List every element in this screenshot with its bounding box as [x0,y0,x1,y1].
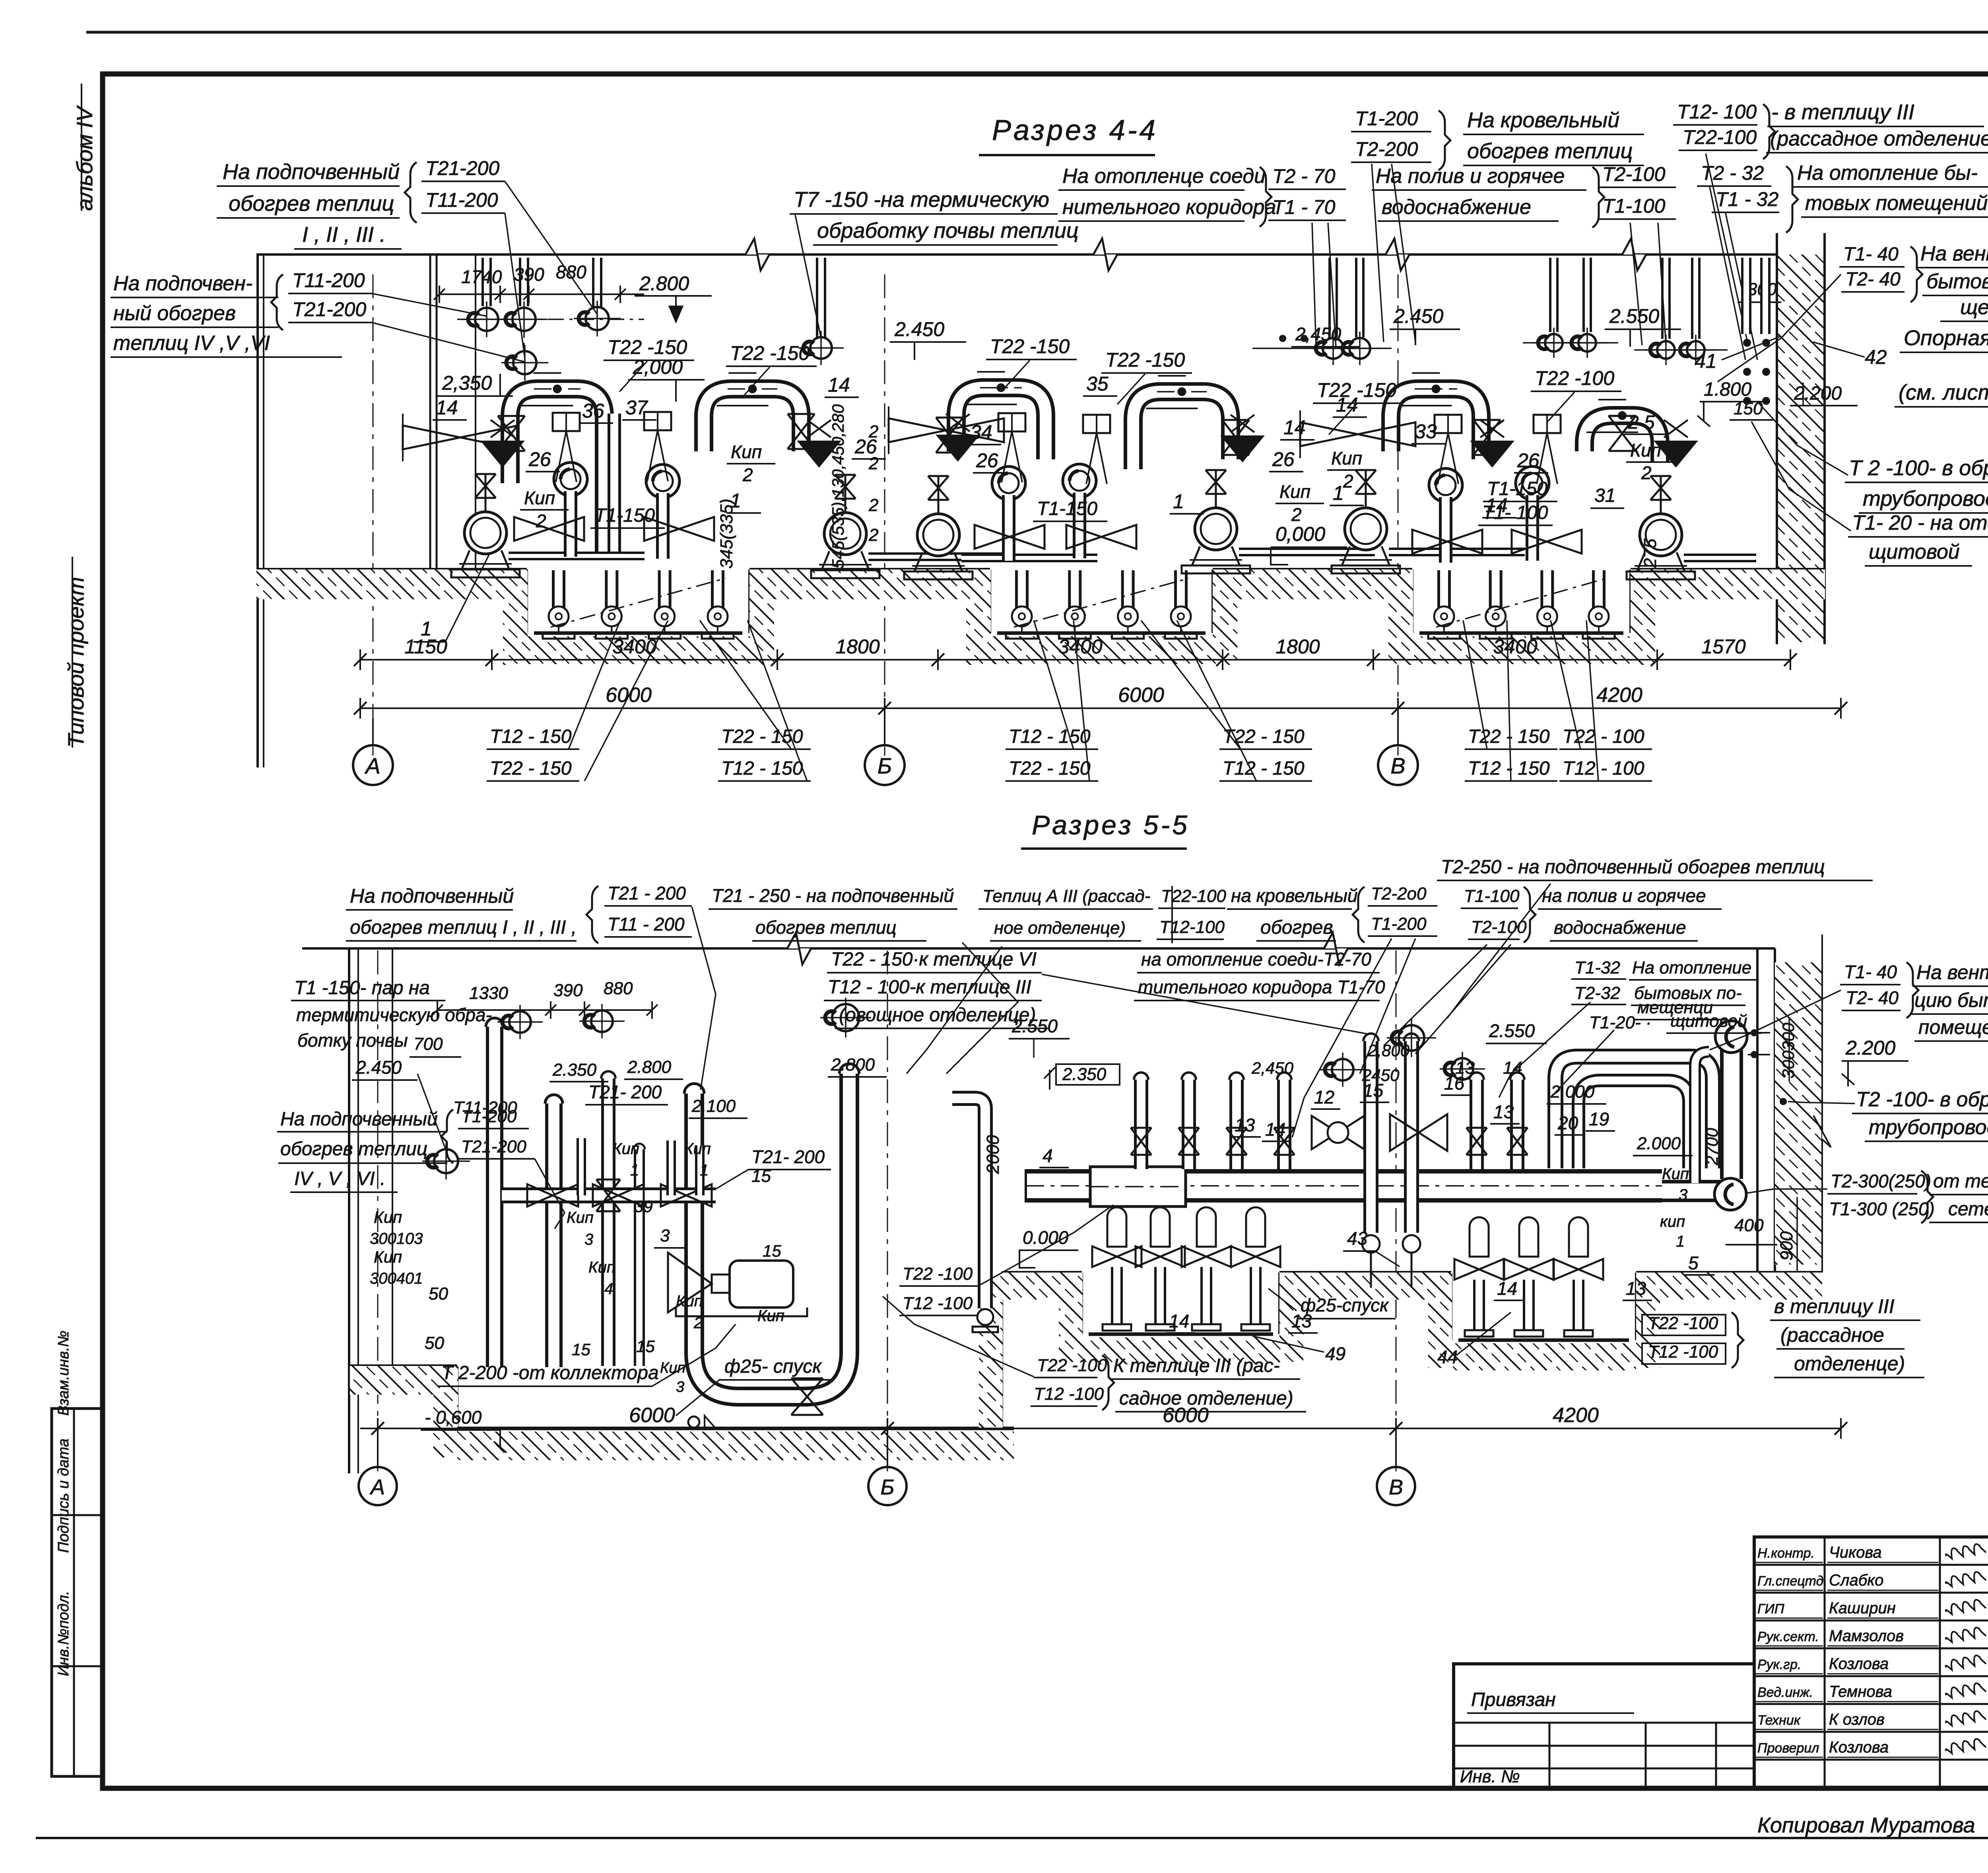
signature row 4 [1754,1648,1988,1650]
signature row 1 [1754,1564,1988,1566]
svg-text:Каширин: Каширин [1829,1599,1896,1617]
svg-text:20: 20 [1557,1113,1578,1133]
gate valve (black) 6 [1654,441,1698,468]
riser pipe 2000 to teplitsa III [952,1098,985,1308]
svg-text:Т2-32: Т2-32 [1574,983,1620,1003]
svg-text:Т2-300(250): Т2-300(250) [1831,1171,1931,1191]
svg-text:33: 33 [1415,420,1437,443]
valve X 1 [498,416,525,451]
svg-text:трубопровод: трубопровод [1863,487,1988,511]
svg-text:- 0,600: - 0,600 [425,1407,482,1428]
elevation marks top row 4-4 [457,319,644,320]
svg-text:от тепловых: от тепловых [1933,1171,1988,1192]
pipe loop U3 (T22) [956,388,1046,459]
ground band mid 5-5 [1279,1271,1451,1274]
svg-text:Т1- 40: Т1- 40 [1843,244,1899,265]
down pipe at 3034 [1197,1207,1216,1247]
inner pipe T1-150 cluster1 [608,414,621,553]
svg-text:Т1-100: Т1-100 [1464,886,1520,906]
dim line 4-4 first row [360,659,1790,661]
axis line B 4-4 [884,274,885,756]
gate valve (black) 3 [936,435,980,462]
axis bubbles 5-5 [359,1467,397,1505]
svg-text:Н.контр.: Н.контр. [1757,1546,1815,1561]
svg-text:нительного коридора: нительного коридора [1062,196,1276,219]
svg-text:Кип: Кип [684,1140,711,1158]
svg-text:Т 2-200 -от коллектора: Т 2-200 -от коллектора [441,1362,659,1383]
svg-text:А: А [364,753,380,778]
svg-text:Инв.№подл.: Инв.№подл. [55,1591,72,1676]
svg-text:К теплице III (рас-: К теплице III (рас- [1113,1355,1280,1376]
svg-text:6000: 6000 [1118,684,1164,707]
svg-text:На отопление бы-: На отопление бы- [1797,161,1978,185]
svg-text:12: 12 [1314,1087,1334,1107]
valve X 2 [788,414,815,449]
svg-text:6000: 6000 [1163,1404,1209,1427]
down pipe at 3158 [1246,1207,1265,1247]
pit 3552 4-4 [1411,569,1413,633]
svg-text:4: 4 [604,1280,613,1298]
svg-text:2: 2 [1291,504,1302,525]
svg-text:Кип: Кип [374,1208,402,1226]
riser at 3816 [1510,1080,1524,1169]
svg-text:Типовой проект: Типовой проект [63,577,88,748]
svg-text:В: В [1390,753,1405,778]
svg-text:1: 1 [730,490,741,512]
pit 1325 4-4 [526,569,528,633]
ceiling risers 4-4 [481,258,492,306]
pipe loop U6 (T22) [1584,416,1660,461]
suction valve 4 [1066,525,1136,549]
svg-text:На подпочвенный: На подпочвенный [223,160,400,184]
extra risers left group [601,1078,615,1366]
svg-text:обогрев теплиц: обогрев теплиц [280,1139,427,1160]
svg-text:(рассадное: (рассадное [1780,1324,1884,1346]
svg-text:Чикова: Чикова [1829,1544,1882,1561]
svg-text:Т22-100: Т22-100 [1683,126,1757,148]
signature row 8 [1754,1759,1988,1761]
svg-text:Т2- 40: Т2- 40 [1846,987,1899,1008]
tall risers T22-100 [1363,1041,1378,1233]
svg-text:2.200: 2.200 [1794,383,1842,404]
svg-text:Т1-200: Т1-200 [1371,914,1427,934]
svg-text:Техник: Техник [1757,1713,1801,1728]
svg-text:Инв. №: Инв. № [1460,1767,1520,1786]
dim 1740/390/880 [439,293,644,295]
manifold risers 5-5 left [577,1138,586,1195]
gate valve (black) 2 [797,441,841,468]
riser elbow 3 [992,466,1025,500]
left group risers 5-5 [486,1027,503,1367]
svg-text:Т12 -100: Т12 -100 [1648,1342,1718,1362]
svg-text:Т22-100: Т22-100 [1161,886,1226,906]
right wall 5-5 [1756,948,1759,1273]
svg-text:Т11-200: Т11-200 [425,189,498,211]
outer paper border top [86,31,1988,34]
svg-text:37: 37 [625,396,648,419]
instrument flag 5 [1435,415,1462,433]
svg-text:ф25-спуск: ф25-спуск [1301,1295,1389,1315]
svg-text:термитическую обра-: термитическую обра- [296,1005,492,1025]
svg-text:2.800: 2.800 [627,1057,672,1077]
svg-text:1330: 1330 [469,983,508,1003]
svg-text:Слабко: Слабко [1829,1572,1883,1589]
svg-text:39: 39 [634,1197,653,1216]
svg-text:Кип: Кип [374,1247,402,1266]
svg-text:щений: щений [1960,296,1988,319]
5-5 left dims [437,1009,652,1011]
svg-text:Т22 -100: Т22 -100 [903,1264,973,1284]
svg-text:26: 26 [528,448,551,470]
valve X 3 [936,418,963,453]
svg-text:49: 49 [1325,1343,1345,1364]
svg-text:Кип: Кип [588,1259,615,1276]
svg-text:Т12 - 150: Т12 - 150 [721,758,803,779]
svg-text:Т1-150: Т1-150 [1037,498,1097,519]
svg-text:ф25- спуск: ф25- спуск [724,1356,822,1377]
svg-text:2,450: 2,450 [1251,1059,1294,1077]
elevation marks 5-5 left [434,1149,458,1173]
dim line 4-4 second row [360,707,1841,709]
svg-text:Козлова: Козлова [1829,1739,1889,1756]
svg-text:- в теплицу III: - в теплицу III [1771,100,1914,124]
svg-text:2700: 2700 [1703,1128,1721,1166]
svg-text:Т12 -100: Т12 -100 [903,1294,973,1313]
svg-text:2: 2 [868,495,878,515]
svg-text:Т12 - 150: Т12 - 150 [1223,758,1305,779]
svg-text:Рук.гр.: Рук.гр. [1757,1657,1801,1672]
instrument flag 3 [998,413,1025,431]
svg-text:Темнова: Темнова [1829,1683,1892,1700]
long valve 14-1 [403,426,518,449]
pump unit 2 [824,513,866,555]
riser elbow 2 [646,464,679,498]
svg-text:Т12 - 150: Т12 - 150 [1009,726,1091,747]
elevation circles 5-5 mid [1332,1059,1353,1080]
svg-text:15: 15 [751,1166,771,1186]
svg-text:34: 34 [970,421,992,443]
svg-text:14: 14 [1265,1119,1285,1140]
svg-text:Т22 - 100: Т22 - 100 [1563,726,1644,747]
instrument flag 6 [1534,415,1561,433]
svg-text:Т12-100: Т12-100 [1159,917,1225,937]
svg-text:Мамзолов: Мамзолов [1829,1627,1904,1645]
svg-text:14: 14 [828,374,850,396]
svg-text:3: 3 [1679,1186,1687,1204]
pit 2490 4-4 [989,569,991,633]
svg-text:2.550: 2.550 [1609,305,1659,327]
svg-text:15: 15 [572,1340,590,1359]
svg-text:обогрев теплиц: обогрев теплиц [1467,139,1633,163]
svg-text:цию бытовых: цию бытовых [1914,989,1988,1011]
svg-text:Кип: Кип [1630,440,1661,460]
svg-text:545(535),130,450,280: 545(535),130,450,280 [829,404,847,569]
svg-text:390: 390 [514,264,544,285]
pit pipes [552,570,565,616]
svg-text:Т22 - 150: Т22 - 150 [1009,758,1091,779]
svg-text:0.000: 0.000 [1023,1227,1069,1248]
long leaders 5-5 [907,946,1002,1074]
svg-text:14: 14 [1503,1058,1522,1078]
riser elbow 5 [1429,468,1462,502]
svg-text:19: 19 [1589,1109,1609,1129]
gate valve (black) 4 [1220,435,1265,462]
svg-text:на отопление соеди-Т2-70: на отопление соеди-Т2-70 [1141,949,1371,970]
svg-text:13: 13 [1455,1058,1475,1078]
svg-text:кип: кип [1660,1213,1685,1230]
signature row 3 [1754,1620,1988,1622]
svg-text:обогрев теплиц: обогрев теплиц [229,192,394,216]
svg-text:альбом IV: альбом IV [72,105,97,211]
outer paper border bottom [36,1837,1988,1839]
svg-text:Т1 - 70: Т1 - 70 [1272,196,1336,218]
svg-text:13: 13 [1291,1311,1312,1331]
svg-text:1: 1 [1333,482,1344,504]
svg-text:400: 400 [1734,1216,1764,1235]
svg-text:2.350: 2.350 [552,1060,597,1080]
svg-text:(рассадное отделение): (рассадное отделение) [1770,127,1988,150]
svg-text:Т12 - 150: Т12 - 150 [1468,758,1550,779]
svg-text:26: 26 [854,435,877,458]
svg-text:1800: 1800 [835,635,879,658]
svg-text:0,000: 0,000 [1276,523,1325,545]
svg-text:2000: 2000 [983,1135,1003,1174]
svg-text:тительного коридора Т1-70: тительного коридора Т1-70 [1138,977,1385,997]
svg-text:Т22 -100: Т22 -100 [1535,367,1614,389]
svg-text:2.000: 2.000 [1550,1082,1595,1102]
svg-text:Т1-150: Т1-150 [1487,478,1547,499]
svg-text:Вед.инж.: Вед.инж. [1757,1685,1813,1700]
svg-text:I , II , III .: I , II , III . [302,223,386,247]
svg-text:Т1- 40: Т1- 40 [1844,962,1897,982]
svg-text:14: 14 [436,396,458,419]
drain on floor [676,1428,779,1430]
svg-text:6000: 6000 [629,1404,675,1427]
svg-text:43: 43 [1347,1228,1368,1249]
svg-text:700: 700 [414,1034,443,1054]
suction pipe 3 [961,554,1097,562]
svg-text:Разрез 4-4: Разрез 4-4 [992,115,1158,146]
svg-text:ботку почвы: ботку почвы [297,1030,408,1051]
svg-text:Кип: Кип [1331,448,1362,468]
svg-text:На подпочвенный: На подпочвенный [280,1109,438,1130]
svg-text:44: 44 [1437,1346,1458,1367]
svg-text:1740: 1740 [461,266,502,287]
valve X 4 [1222,420,1249,455]
svg-text:Т1- 20 - на отопление: Т1- 20 - на отопление [1852,511,1988,534]
axis bubbles 4-4 [353,745,393,785]
svg-text:14: 14 [1497,1278,1517,1299]
dim line 5-5 [360,1428,1841,1429]
svg-text:обогрев: обогрев [1260,917,1333,938]
pump unit 1 [464,512,507,554]
svg-text:обогрев теплиц I , II , III ,: обогрев теплиц I , II , III , [350,917,577,938]
svg-text:обогрев теплиц: обогрев теплиц [755,917,897,938]
pit pipes [1437,570,1451,616]
svg-text:Т22 - 150: Т22 - 150 [490,758,572,779]
svg-text:в теплицу III: в теплицу III [1774,1295,1895,1317]
svg-text:Т11-200: Т11-200 [292,269,365,291]
down pipe at 2809 [1107,1207,1126,1247]
svg-text:3400: 3400 [1493,635,1537,658]
suction pipe 5 [1389,548,1525,556]
svg-text:Т22 - 150: Т22 - 150 [1468,726,1550,747]
svg-text:Т7 -150 -на термическую: Т7 -150 -на термическую [794,188,1049,212]
svg-text:5: 5 [1688,1253,1699,1273]
instrument flag 2 [644,412,671,430]
svg-text:Привязан: Привязан [1471,1689,1556,1710]
svg-text:1: 1 [1173,490,1184,513]
svg-text:IV , V , VI .: IV , V , VI . [294,1168,385,1189]
svg-text:помещенци: помещенци [1918,1016,1988,1038]
svg-text:Кип: Кип [731,441,762,462]
svg-text:13: 13 [1626,1278,1646,1299]
svg-text:2.550: 2.550 [1489,1020,1535,1041]
ground line 4-4 [256,568,527,571]
svg-text:водоснабжение: водоснабжение [1382,196,1531,219]
header manifold 5-5 right [1026,1169,1662,1203]
svg-text:На отопление: На отопление [1632,958,1751,977]
thin riser pair mid [1695,1052,1709,1183]
svg-text:товых помещений: товых помещений [1805,192,1988,215]
svg-text:Подпись и дата: Подпись и дата [55,1439,72,1553]
svg-text:4200: 4200 [1596,684,1642,707]
svg-text:трубопровод: трубопровод [1869,1116,1988,1139]
riser at 2990 [1182,1080,1196,1169]
svg-text:щитовой: щитовой [1670,1011,1747,1031]
svg-text:2: 2 [693,1314,703,1332]
suction pipe 1 [509,552,645,560]
ceiling line of section 4-4 [256,253,1777,256]
riser at 3714 [1470,1080,1484,1169]
svg-text:2: 2 [536,511,546,531]
ground profile 5-5 [350,1364,457,1368]
svg-text:Кип: Кип [567,1209,594,1226]
svg-text:2.450: 2.450 [1393,305,1443,327]
svg-text:390: 390 [553,981,583,1000]
signature row 5 [1754,1675,1988,1677]
down pipe at 2918 [1151,1207,1170,1247]
big U pipe 5-5 [694,1074,849,1397]
svg-text:Т2-2о0: Т2-2о0 [1371,884,1427,903]
long valve 14-2 [889,418,1004,442]
svg-text:Рук.сект.: Рук.сект. [1757,1629,1819,1644]
svg-text:42: 42 [1865,346,1887,368]
svg-text:15: 15 [763,1242,781,1260]
svg-text:300300: 300300 [1779,1022,1798,1078]
svg-text:На подпочвен-: На подпочвен- [113,272,252,295]
svg-text:(см. листы КЖ-9, КЖ-10): (см. листы КЖ-9, КЖ-10) [1899,381,1988,404]
axis lines 5-5 [377,950,379,1471]
svg-text:Опорная подушка: Опорная подушка [1904,326,1988,350]
globe valves mid 5-5 [1312,1116,1364,1149]
svg-text:1.800: 1.800 [1704,379,1751,400]
valve X 5 [1474,420,1501,455]
pipe loop U5 (T22) [1391,389,1481,459]
pit3 5-5 [1450,1273,1452,1340]
elevation marks mid 4-4 [1279,335,1286,342]
riser elbow 6 [1516,466,1549,500]
svg-text:2 5: 2 5 [1628,412,1655,433]
instrument flag 1 [553,413,580,431]
instrument flag 4 [1083,415,1110,433]
svg-text:Т12 -100: Т12 -100 [1034,1384,1104,1404]
svg-text:сетей: сетей [1948,1199,1988,1220]
svg-text:2.450: 2.450 [894,318,944,340]
svg-text:Копировал Муратова: Копировал Муратова [1757,1813,1975,1837]
svg-text:3: 3 [660,1226,670,1245]
svg-text:Т11-200: Т11-200 [453,1098,517,1117]
svg-text:Т21-200: Т21-200 [461,1137,526,1156]
svg-text:Кип: Кип [1279,481,1310,502]
svg-text:Т1-20- ·: Т1-20- · [1589,1013,1651,1032]
svg-text:Т 2 -100- в обратный: Т 2 -100- в обратный [1849,456,1988,480]
leaders from tags to pits [569,620,620,749]
pump unit 4 [1195,508,1237,550]
svg-text:880: 880 [556,262,586,282]
svg-text:880: 880 [604,979,633,998]
svg-text:41: 41 [1695,350,1717,372]
svg-text:Т22 -150: Т22 -150 [990,335,1070,358]
svg-text:На подпочвенный: На подпочвенный [350,885,514,907]
svg-text:Т22 -100: Т22 -100 [1037,1356,1107,1375]
svg-text:Т21- 200: Т21- 200 [751,1146,825,1167]
svg-text:2.100: 2.100 [691,1096,736,1116]
svg-text:Т1-200: Т1-200 [1355,107,1418,130]
pump unit 5 [1345,508,1387,550]
nested elbow pipes T1-20 [1555,1057,1713,1168]
svg-text:теплиц IV ,V ,VI: теплиц IV ,V ,VI [113,332,270,355]
svg-text:2: 2 [1641,462,1652,483]
svg-text:бытовых поме-: бытовых поме- [1926,270,1988,293]
svg-text:50: 50 [425,1333,444,1353]
svg-text:Т1- 100: Т1- 100 [1482,502,1548,523]
svg-text:26: 26 [1272,448,1295,470]
svg-text:Т1-32: Т1-32 [1574,958,1620,977]
svg-text:Т22 -150: Т22 -150 [1105,349,1185,371]
svg-text:ный обогрев: ный обогрев [113,302,236,325]
svg-text:Т12 - 150: Т12 - 150 [490,726,572,747]
small pipes right wall [1741,258,1751,334]
suction valve 1 [514,517,584,541]
suction pipe 4 [1239,548,1375,556]
svg-text:на полив и горячее: на полив и горячее [1542,885,1706,906]
svg-text:35: 35 [1086,373,1109,395]
pump unit 3 [917,514,959,556]
svg-text:Т2 - 70: Т2 - 70 [1272,165,1336,187]
signature row 7 [1754,1731,1988,1733]
svg-text:2.350: 2.350 [1062,1065,1107,1084]
svg-text:1570: 1570 [1701,635,1745,658]
svg-text:(овощное отделенце): (овощное отделенце) [839,1005,1036,1026]
svg-text:2,350: 2,350 [442,372,492,394]
svg-text:2.800: 2.800 [831,1055,875,1074]
svg-text:1: 1 [700,1162,709,1179]
svg-text:13: 13 [1235,1115,1255,1135]
left wall edge 4-4 [256,255,259,767]
pipe loop U1 (T22) [510,389,604,557]
svg-text:Б: Б [878,753,892,778]
svg-text:26: 26 [976,449,998,472]
svg-text:водоснабжение: водоснабжение [1554,917,1686,938]
column line 4-4 [429,255,431,569]
svg-text:Т22 -150: Т22 -150 [730,342,810,364]
svg-text:Кип: Кип [676,1292,703,1310]
riser at 3230 [1277,1080,1291,1169]
suction valve 5 [1412,530,1482,554]
svg-text:Козлова: Козлова [1829,1655,1889,1673]
svg-text:Разрез 5-5: Разрез 5-5 [1032,810,1190,840]
